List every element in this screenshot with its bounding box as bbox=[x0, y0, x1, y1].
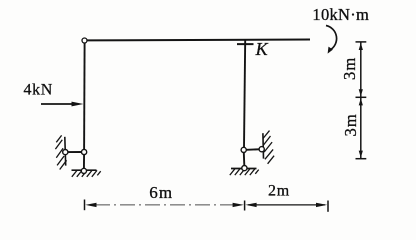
force 4kN arrow bbox=[41, 102, 84, 107]
left support horizontal link bbox=[65, 151, 84, 153]
6m arrowheads bbox=[85, 203, 244, 207]
right support ground hatching bbox=[230, 169, 259, 175]
left support pin on column bbox=[82, 149, 87, 154]
right support pin at wall bbox=[259, 147, 264, 152]
right support pin at ground bbox=[242, 166, 247, 171]
right support vertical link bbox=[243, 150, 246, 168]
moment arrow 10kN·m (clockwise arc) bbox=[326, 26, 337, 54]
hinge at top-left corner bbox=[82, 38, 87, 43]
right dimension tick bottom bbox=[356, 158, 367, 160]
right dimension tick top bbox=[356, 41, 367, 43]
right support pin on column bbox=[241, 147, 246, 152]
bottom dimension tick left bbox=[84, 200, 86, 211]
left support ground line bbox=[72, 169, 97, 171]
svg-text:4kN: 4kN bbox=[24, 82, 53, 99]
left support wall hatching bbox=[55, 135, 66, 169]
right column bbox=[244, 40, 245, 147]
right dimension arrowheads bbox=[359, 43, 363, 158]
svg-text:6m: 6m bbox=[149, 183, 173, 202]
svg-text:2m: 2m bbox=[268, 182, 290, 199]
2m arrowheads bbox=[245, 203, 327, 207]
svg-text:3m: 3m bbox=[341, 113, 360, 136]
right support wall line bbox=[262, 133, 265, 158]
svg-text:3m: 3m bbox=[340, 57, 359, 80]
right dimension tick middle bbox=[356, 96, 367, 98]
left column bbox=[83, 44, 86, 150]
svg-text:10kN·m: 10kN·m bbox=[312, 5, 369, 24]
left support vertical link bbox=[83, 152, 85, 171]
left support ground hatching bbox=[72, 170, 101, 176]
section K tick bbox=[237, 43, 254, 45]
dimension line 2m bbox=[248, 204, 325, 206]
right support wall hatching bbox=[263, 131, 274, 164]
right support ground line bbox=[231, 168, 257, 170]
bottom dimension tick right bbox=[327, 201, 329, 212]
dimension line 6m (chain line) bbox=[95, 204, 234, 206]
bottom dimension tick middle bbox=[244, 201, 246, 211]
left support pin at ground bbox=[81, 168, 86, 173]
left support wall line bbox=[64, 137, 67, 166]
left support pin at wall bbox=[63, 150, 68, 155]
beam bbox=[87, 39, 310, 42]
svg-text:K: K bbox=[255, 39, 269, 59]
right dimension extension line bbox=[360, 42, 362, 159]
right support horizontal link bbox=[244, 148, 262, 151]
